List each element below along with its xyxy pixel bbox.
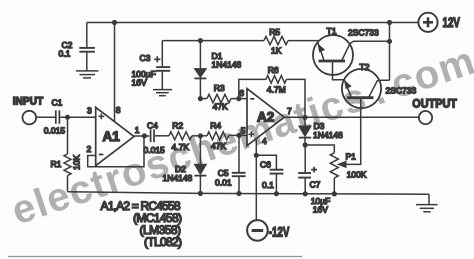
resistor R2 [169, 120, 192, 151]
svg-text:R4: R4 [210, 120, 221, 130]
svg-text:R6: R6 [268, 65, 279, 75]
node C7 bottom [303, 191, 308, 196]
svg-text:4.7M: 4.7M [267, 84, 286, 94]
svg-text:T2: T2 [360, 62, 370, 72]
svg-text:P1: P1 [346, 152, 357, 162]
svg-text:47K: 47K [213, 102, 228, 112]
node A2 pin6 [236, 96, 241, 101]
node R3 left [198, 96, 203, 101]
capacitor C3 [132, 41, 171, 90]
wire R2 to R4 [192, 135, 207, 137]
wire R5 to T1 emitter [288, 40, 318, 42]
scan border line bottom [8, 256, 302, 258]
capacitor C4 [144, 120, 166, 155]
svg-text:6: 6 [239, 88, 244, 98]
transistor T2 [342, 62, 417, 108]
svg-text:2SC733: 2SC733 [348, 28, 379, 38]
svg-text:47K: 47K [211, 141, 226, 151]
svg-text:4: 4 [262, 136, 267, 146]
resistor R5 [264, 27, 288, 56]
node pin4/C6 [254, 153, 259, 158]
wire R6 feedback loop [239, 79, 305, 117]
resistor R3 [207, 83, 231, 112]
node A2 out [302, 115, 307, 120]
potentiometer P1 [330, 152, 366, 180]
node input [65, 115, 70, 120]
svg-text:C6: C6 [260, 160, 271, 170]
svg-text:1N4148: 1N4148 [212, 59, 242, 69]
svg-text:1: 1 [135, 125, 140, 135]
resistor R4 [207, 120, 229, 151]
node D1 top [198, 38, 203, 43]
wire T2 base to P1 wiper [345, 99, 361, 164]
wire input to C1 [36, 116, 56, 118]
svg-text:0.1: 0.1 [59, 49, 71, 59]
wire A1 output [134, 135, 149, 137]
supply +12V [418, 13, 460, 32]
node T1 collector [387, 39, 392, 44]
svg-text:1N4148: 1N4148 [313, 130, 343, 140]
transistor T1 [313, 26, 390, 75]
svg-text:3: 3 [87, 106, 92, 116]
wire collector vertical to rail [389, 23, 391, 81]
svg-text:C4: C4 [147, 120, 158, 130]
node A1 out [142, 133, 147, 138]
node A2 pin5 [236, 133, 241, 138]
op-amp A1 [87, 105, 140, 166]
wire +12V top rail [87, 22, 419, 24]
ground (C3) [153, 90, 172, 96]
svg-text:A2: A2 [257, 110, 274, 125]
wire P1 to rail [333, 178, 335, 194]
svg-text:T1: T1 [327, 26, 337, 36]
wire A1 feedback pin2 [88, 136, 144, 167]
svg-text:1K: 1K [271, 46, 282, 56]
node P1 bottom [332, 191, 337, 196]
resistor R6 [266, 65, 286, 95]
svg-text:1N4148: 1N4148 [163, 173, 193, 183]
svg-text:2: 2 [87, 144, 92, 154]
wire rail to ground [428, 194, 430, 204]
capacitor C1 [44, 98, 66, 136]
diode D1 [194, 41, 241, 99]
wiper arrowhead [338, 161, 346, 167]
svg-text:7: 7 [287, 106, 292, 116]
node C5 bottom [236, 191, 241, 196]
ground (right) [416, 205, 438, 212]
watermark electroschematics.com [6, 38, 474, 234]
svg-text:2SC733: 2SC733 [386, 86, 417, 96]
node D3 cathode [303, 142, 308, 147]
ground (C2) [76, 71, 98, 78]
wire R1 to rail [67, 176, 69, 192]
svg-text:0.015: 0.015 [44, 126, 66, 136]
capacitor C7 [298, 145, 330, 215]
capacitor C2 [59, 23, 95, 71]
svg-text:(TL082): (TL082) [144, 235, 182, 249]
wire T1 base to T2 emitter [333, 62, 345, 79]
svg-text:INPUT: INPUT [13, 95, 44, 108]
terminal OUTPUT [412, 98, 457, 124]
svg-text:A1: A1 [103, 129, 121, 144]
svg-text:R1: R1 [51, 159, 62, 169]
svg-text:16V: 16V [313, 205, 328, 215]
diode D3 [299, 117, 343, 145]
svg-text:100K: 100K [347, 169, 367, 179]
wire R4 to A2 pin5 [229, 134, 247, 136]
svg-text:16V: 16V [132, 78, 147, 88]
svg-text:R3: R3 [214, 83, 225, 93]
resistor R1 [51, 154, 82, 176]
IC list text [101, 199, 183, 249]
svg-text:0.1: 0.1 [262, 180, 274, 190]
node collectors on rail [387, 20, 392, 25]
node mid (D2 top) [198, 133, 203, 138]
node C6 bottom [274, 191, 279, 196]
terminal INPUT [13, 95, 44, 124]
svg-text:8: 8 [116, 105, 121, 115]
svg-text:5: 5 [241, 126, 246, 136]
wire C4 to R2 [155, 135, 169, 137]
wire R3 to A2 pin6 [200, 98, 247, 100]
svg-text:OUTPUT: OUTPUT [412, 98, 457, 111]
diode D2 [163, 136, 207, 194]
wire A2 pin4 to -12V [255, 139, 257, 220]
capacitor C6 [256, 155, 283, 193]
svg-text:C1: C1 [52, 98, 63, 108]
wire C3 D1 R5 net [162, 40, 264, 42]
wire A1 pin8 to rail [114, 23, 116, 122]
op-amp A2 [239, 88, 292, 146]
svg-text:0.01: 0.01 [215, 177, 232, 187]
svg-text:12V: 12V [443, 14, 460, 30]
svg-text:C3: C3 [140, 53, 151, 63]
svg-text:R5: R5 [269, 27, 280, 37]
svg-text:4.7K: 4.7K [172, 142, 190, 152]
wire C1 to A1 pin3 [60, 116, 95, 118]
svg-text:-12V: -12V [269, 224, 290, 240]
wire input node down [67, 117, 69, 154]
capacitor C5 [215, 135, 246, 193]
wire -12V bottom rail [68, 192, 430, 194]
supply -12V [247, 220, 289, 241]
svg-text:10K: 10K [72, 155, 82, 170]
node A1 pin8 on rail [112, 20, 117, 25]
svg-text:R2: R2 [172, 120, 183, 130]
wire D3 node to P1 top [305, 145, 334, 153]
svg-text:C7: C7 [310, 180, 321, 190]
wire A2 output to OUTPUT [284, 116, 419, 118]
node D2 bottom [198, 191, 203, 196]
svg-text:0.015: 0.015 [144, 145, 166, 155]
